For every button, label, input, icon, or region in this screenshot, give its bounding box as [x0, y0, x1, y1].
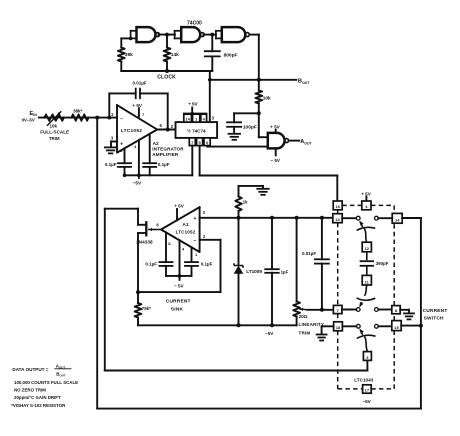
- ground below 100pF: [233, 127, 235, 133]
- A2 +5V stub: [138, 108, 140, 118]
- switch contact 13 right: [375, 216, 379, 220]
- A2 feedback wire right: [140, 92, 168, 94]
- switch arm 7: [364, 285, 367, 296]
- wire 1k to ground: [239, 185, 264, 187]
- NAND gate G1 (74C00): [137, 27, 156, 42]
- switch contact 7 right: [375, 308, 379, 312]
- svg-text:−: −: [120, 117, 123, 123]
- wire G1 input to 38k: [121, 37, 130, 39]
- node dot wiper junction: [320, 308, 324, 312]
- A2 pin4 stub: [138, 140, 140, 175]
- Q1 gate wire with arrow: [149, 229, 161, 231]
- pin box 11: [362, 275, 371, 285]
- svg-text:2N4338: 2N4338: [136, 239, 153, 244]
- pin box 7: [189, 138, 195, 146]
- label -5V A2: [138, 175, 140, 178]
- switch contact 18 right: [375, 324, 379, 328]
- svg-text:20ppm/°C GAIN DRIFT: 20ppm/°C GAIN DRIFT: [14, 395, 61, 400]
- ground 1k: [257, 188, 269, 190]
- wire pin7 to contact: [342, 309, 356, 311]
- wire 10k to node: [258, 103, 260, 113]
- svg-text:CLOCK: CLOCK: [157, 75, 176, 81]
- wire pin7 to -5V rail: [191, 146, 193, 176]
- svg-text:CURRENT: CURRENT: [423, 308, 448, 314]
- G4 +5V stub: [275, 130, 277, 133]
- dashed outline segment 18-17: [337, 331, 339, 389]
- dashed outline segment 13-7: [337, 223, 339, 306]
- svg-text:390pF: 390pF: [376, 261, 389, 266]
- node dot A1 rail: [178, 274, 182, 278]
- svg-text:NO ZERO TRIM: NO ZERO TRIM: [14, 387, 46, 392]
- svg-text:10k: 10k: [263, 96, 271, 102]
- svg-text:+ 5V: + 5V: [188, 101, 199, 106]
- node dot A2 rail: [137, 173, 141, 177]
- capacitor C 100pF: [227, 121, 241, 123]
- wire A1 pin3 reference rail: [200, 217, 333, 219]
- wire current sink drain loop: [105, 208, 138, 210]
- svg-text:0.01µF: 0.01µF: [302, 251, 316, 256]
- svg-text:LT1009: LT1009: [246, 269, 262, 274]
- svg-text:1k: 1k: [243, 199, 249, 204]
- svg-text:16: 16: [335, 204, 340, 209]
- capacitor C 800pF: [211, 35, 213, 52]
- op-amp A1 LTC1052 triangle (mirrored): [161, 207, 200, 252]
- svg-text:100,000 COUNTS FULL SCALE: 100,000 COUNTS FULL SCALE: [14, 380, 78, 385]
- node dot riser 15: [419, 324, 423, 328]
- fraction bar: [55, 368, 71, 370]
- A1 +5V stub: [176, 209, 178, 220]
- resistor R 38k: [118, 48, 125, 62]
- wire rail to 74C74 pin2: [209, 71, 211, 122]
- NAND gate G3 (74C00): [222, 27, 245, 42]
- resistor R 75k star: [137, 292, 139, 303]
- potentiometer 10k full-scale trim: [44, 114, 64, 120]
- ground A2 pin3: [105, 146, 117, 148]
- wire summing node to bottom rail: [96, 118, 98, 409]
- svg-text:38k*: 38k*: [73, 108, 83, 113]
- svg-text:SWITCH: SWITCH: [424, 316, 444, 322]
- clock RC bottom rail: [121, 70, 212, 72]
- switch contact 18 left: [356, 324, 360, 328]
- resistor R 1k: [238, 211, 240, 218]
- svg-text:13: 13: [335, 217, 340, 222]
- wire pin15 to riser: [401, 325, 421, 327]
- wire right riser to switch: [420, 218, 422, 409]
- node dot input: [95, 116, 99, 120]
- wire G4 output: [289, 140, 299, 142]
- ground pin18: [317, 334, 327, 336]
- node dot 0.01uF top: [320, 216, 324, 220]
- wire node to NAND4 input: [258, 113, 260, 137]
- wire node to 100pF: [234, 112, 259, 114]
- svg-text:+ 5V: + 5V: [270, 125, 281, 130]
- wire contact to pin8: [378, 309, 392, 311]
- dashed outline segment 8-14: [393, 223, 395, 305]
- pins 14-1-4 tie bar: [184, 112, 207, 114]
- svg-text:75k*: 75k*: [142, 306, 151, 311]
- svg-text:INTEGRATOR: INTEGRATOR: [152, 146, 184, 151]
- svg-text:+ 5V: + 5V: [174, 204, 185, 209]
- transistor Q1 2N4338 JFET: [137, 209, 139, 225]
- potentiometer 20 ohm linearity trim: [296, 218, 298, 302]
- capacitor C 1uF: [271, 218, 273, 269]
- svg-text:LTC1043: LTC1043: [354, 377, 374, 382]
- wire cap to pin11: [366, 266, 368, 276]
- ground pin8: [404, 312, 414, 314]
- pin box 14: [184, 114, 192, 122]
- svg-text:17: 17: [365, 388, 370, 393]
- node dot ref rail 1k: [237, 216, 241, 220]
- pin box 3: [363, 352, 371, 361]
- svg-text:FULL-SCALE: FULL-SCALE: [40, 129, 69, 134]
- pin box 15: [392, 321, 401, 331]
- pin box 18: [334, 322, 343, 331]
- wire G2 output: [203, 34, 216, 36]
- switch arm 18: [357, 335, 376, 338]
- A2 feedback wire left: [108, 93, 110, 117]
- svg-text:74C00: 74C00: [187, 21, 202, 27]
- pin box 6: [204, 138, 210, 146]
- G3 tied inputs loop: [216, 30, 222, 32]
- node dot Bout tap: [208, 78, 212, 82]
- svg-text:SINK: SINK: [171, 306, 184, 312]
- NAND gate G4 Aout: [268, 133, 285, 149]
- node dot 14k top: [165, 33, 169, 37]
- svg-text:10k: 10k: [49, 123, 57, 128]
- svg-text:0.01µF: 0.01µF: [133, 81, 147, 86]
- node dot feedback tap: [107, 116, 111, 120]
- svg-text:LINEARITY: LINEARITY: [299, 322, 325, 327]
- A1 pin4 stub: [179, 240, 181, 276]
- A1 pin8 stub and cap 0.1uF left: [165, 232, 167, 262]
- svg-text:− 5V: − 5V: [270, 158, 281, 163]
- wire A1 pin2 sense: [200, 239, 221, 241]
- svg-text:LTC1052: LTC1052: [121, 128, 142, 134]
- svg-text:38k: 38k: [125, 52, 133, 58]
- pin box 13: [333, 214, 342, 223]
- wire contact to pin15: [378, 325, 392, 327]
- node dot A2 output: [166, 128, 170, 132]
- svg-text:100pF: 100pF: [243, 124, 257, 130]
- NAND gate G2 (74C00): [181, 27, 200, 42]
- wire pin8 to ground: [400, 309, 409, 311]
- wire pin18 to ground: [322, 325, 334, 327]
- A1 bypass rail: [166, 275, 192, 277]
- A2 bypass rail: [125, 174, 193, 176]
- dashed outline segment 16-4: [342, 204, 362, 206]
- G2 tied inputs loop: [175, 30, 182, 32]
- wire wiper to pin7 box: [308, 309, 334, 311]
- pin box 17: [363, 385, 372, 393]
- node dot 14k bottom: [165, 69, 169, 73]
- pin box 5: [197, 138, 203, 146]
- svg-text:+ 5V: + 5V: [132, 103, 143, 108]
- svg-text:15: 15: [394, 325, 399, 330]
- wire pin18 to contact: [342, 325, 356, 327]
- pin box 14 LTC1043: [392, 213, 402, 223]
- svg-text:20Ω: 20Ω: [299, 314, 308, 319]
- wire contact to pin14: [378, 217, 392, 219]
- svg-text:+: +: [194, 216, 197, 222]
- svg-text:0.1µF: 0.1µF: [105, 162, 117, 167]
- svg-text:−5V: −5V: [362, 399, 371, 404]
- dashed outline segment 17-15: [371, 388, 394, 390]
- pin box 8 LTC1043: [392, 306, 400, 314]
- node dot Bout junction: [257, 78, 261, 82]
- svg-text:−: −: [194, 238, 197, 244]
- capacitor C 0.01uF feedback: [135, 89, 137, 99]
- svg-text:DATA OUTPUT =: DATA OUTPUT =: [12, 367, 48, 372]
- svg-text:18: 18: [336, 325, 341, 330]
- wire 38k bottom to rail: [120, 62, 122, 72]
- wire pin13 to contact: [342, 217, 356, 219]
- resistor R 10k: [255, 90, 262, 103]
- switch arm 13: [357, 227, 376, 230]
- wire Bout: [210, 79, 296, 81]
- pot wiper arrow: [48, 112, 61, 125]
- svg-text:TRIM: TRIM: [49, 136, 60, 141]
- svg-text:0V–5V: 0V–5V: [22, 118, 35, 123]
- node dot +5V tie: [191, 112, 194, 115]
- wire G4 lower input: [207, 146, 267, 148]
- svg-text:− 5V: − 5V: [174, 283, 185, 288]
- wire A2 input: [39, 117, 117, 119]
- node dot 1uF bottom: [270, 323, 274, 327]
- A1 cap 0.1uF right: [191, 247, 193, 262]
- node dot clock: [210, 33, 214, 37]
- dashed outline segment 15-8: [393, 314, 395, 321]
- pin box 4 LTC1043: [362, 201, 371, 210]
- node dot 1uF top: [270, 216, 274, 220]
- node dot pot top: [295, 216, 299, 220]
- pin box 7 LTC1043: [333, 305, 342, 313]
- A2 pin3 ground wire: [111, 141, 117, 143]
- resistor R 38k star: [72, 114, 89, 120]
- svg-text:CURRENT: CURRENT: [166, 299, 191, 305]
- svg-text:−5V: −5V: [265, 331, 274, 336]
- node dot zener bottom: [237, 323, 241, 327]
- svg-text:12: 12: [365, 246, 370, 251]
- wire pin14 to riser: [402, 217, 421, 219]
- svg-text:14: 14: [185, 117, 190, 122]
- pin box 4: [201, 114, 207, 122]
- pin4 +5V stub: [365, 197, 367, 201]
- svg-text:14: 14: [395, 218, 400, 223]
- capacitor C 0.01uF switch: [321, 218, 323, 259]
- G4 -5V stub: [275, 148, 277, 155]
- svg-text:1µF: 1µF: [281, 270, 289, 275]
- node dot source sense: [136, 290, 140, 294]
- svg-text:AMPLIFIER: AMPLIFIER: [152, 152, 179, 157]
- negative rail -5V: [138, 324, 297, 326]
- svg-text:LTC1052: LTC1052: [176, 230, 196, 235]
- wire G3 output to corner: [249, 34, 258, 36]
- wire G3 output vertical: [258, 35, 260, 91]
- svg-text:0.1µF: 0.1µF: [145, 261, 157, 266]
- svg-text:0.1µF: 0.1µF: [158, 162, 170, 167]
- A2 pin1 stub and cap 0.1uF left: [124, 148, 126, 163]
- svg-text:−5V: −5V: [133, 180, 142, 185]
- A2 cap 0.1uF right: [149, 134, 151, 163]
- svg-text:TRIM: TRIM: [299, 330, 311, 335]
- G1 tied inputs loop: [131, 30, 137, 32]
- wire pin6 to G4: [206, 146, 208, 147]
- wire pin12 to cap: [366, 252, 368, 260]
- wire pin5 to LTC1043 pin16: [199, 146, 201, 176]
- dashed outline segment 7-18: [337, 314, 339, 322]
- svg-text:+ 5V: + 5V: [361, 191, 372, 196]
- switch contact 13 left: [356, 216, 360, 220]
- svg-text:½ 74C74: ½ 74C74: [187, 127, 206, 133]
- svg-text:14k: 14k: [171, 52, 179, 58]
- resistor R 14k: [166, 35, 168, 48]
- capacitor C 390pF: [361, 260, 374, 262]
- pin box 1: [193, 114, 200, 122]
- svg-text:800pF: 800pF: [224, 53, 238, 59]
- dashed outline segment 4-14 top: [371, 204, 394, 206]
- wire G1 output: [159, 34, 175, 36]
- svg-text:A1: A1: [182, 222, 188, 228]
- svg-text:0.1µF: 0.1µF: [201, 261, 213, 266]
- op-amp A2 LTC1052 triangle: [117, 105, 157, 153]
- switch contact 7 left: [356, 308, 360, 312]
- IC U2 74C74 box: [176, 122, 218, 138]
- svg-text:+: +: [120, 142, 123, 148]
- zener D1 LT1009: [238, 218, 240, 265]
- pot wiper arrow 20 ohm: [300, 308, 308, 311]
- pin box 12: [362, 242, 371, 252]
- A1 rail -5V stub: [179, 276, 181, 280]
- node dot clock divider: [257, 111, 261, 115]
- wire A2 output: [157, 129, 175, 131]
- svg-text:*VISHAY S-102 RESISTOR: *VISHAY S-102 RESISTOR: [11, 403, 66, 408]
- dashed outline segment 16-13: [337, 210, 339, 214]
- pin box 16: [333, 201, 342, 210]
